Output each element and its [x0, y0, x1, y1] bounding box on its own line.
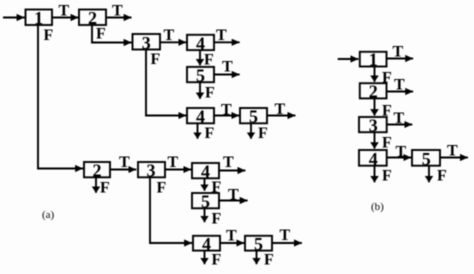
box 5 bottom [245, 236, 272, 251]
wire T out of box4 row4 [219, 170, 245, 172]
wire F box3 down to box4 mid [146, 50, 186, 116]
wire T box2 lower to box3 lower [110, 169, 136, 171]
svg-text:(a): (a) [42, 209, 55, 221]
entry arrow (b) [338, 58, 359, 60]
svg-text:3: 3 [147, 160, 156, 180]
box 3 [133, 34, 161, 50]
svg-text:F: F [382, 168, 392, 185]
wire T box b4 to box b5 [387, 157, 412, 159]
svg-text:T: T [59, 2, 70, 19]
box 3 lower [138, 162, 165, 177]
svg-text:T: T [280, 227, 291, 244]
svg-text:T: T [447, 143, 458, 160]
svg-text:T: T [393, 44, 404, 61]
svg-text:T: T [119, 154, 130, 171]
svg-text:F: F [382, 135, 392, 152]
wire F box5 row5 down [204, 208, 206, 222]
svg-text:F: F [212, 211, 222, 228]
wire F box b3 down [374, 132, 376, 148]
svg-text:T: T [164, 27, 175, 44]
svg-text:F: F [44, 27, 54, 44]
wire F box b5 down [428, 166, 430, 183]
wire T out of box b5 [440, 157, 468, 159]
svg-text:F: F [204, 52, 214, 69]
wire F box1 down [38, 25, 83, 169]
svg-text:4: 4 [201, 161, 210, 181]
svg-text:T: T [222, 59, 233, 76]
svg-text:5: 5 [254, 234, 263, 254]
wire F box4 top down [199, 50, 201, 65]
wire F box4 bottom down [204, 251, 206, 265]
svg-text:5: 5 [249, 107, 258, 127]
svg-text:F: F [205, 85, 215, 102]
svg-text:4: 4 [202, 234, 211, 254]
wire F box2 lower down [95, 177, 97, 193]
svg-text:T: T [396, 144, 407, 161]
wire F box2 down to box3 [92, 25, 132, 43]
wire T out of box b3 [387, 124, 413, 126]
svg-text:4: 4 [196, 33, 205, 53]
svg-text:5: 5 [201, 191, 210, 211]
wire T box4 bottom to box5 bottom [220, 242, 244, 244]
wire T out of box5 upper [214, 74, 240, 76]
wire T out of box4 top [214, 41, 240, 43]
svg-text:1: 1 [34, 8, 43, 28]
wire F box5 upper down [199, 82, 201, 99]
svg-text:T: T [394, 110, 405, 127]
svg-text:T: T [221, 102, 232, 119]
wire T box3 to box4 [160, 41, 186, 43]
wire T out of box5 bottom [272, 242, 302, 244]
svg-text:F: F [382, 103, 392, 120]
svg-text:F: F [205, 125, 215, 142]
svg-text:F: F [437, 168, 447, 185]
svg-text:F: F [264, 252, 274, 269]
svg-text:3: 3 [369, 115, 378, 135]
box 1 [26, 10, 53, 26]
entry arrow (a) [3, 17, 25, 19]
box 5 upper [187, 67, 214, 82]
svg-text:5: 5 [422, 149, 431, 169]
wire F box4 row4 down [204, 178, 206, 190]
svg-text:2: 2 [93, 160, 102, 180]
box 5 row5 [192, 193, 219, 208]
svg-text:5: 5 [196, 65, 205, 85]
wire T box1 to box2 [52, 17, 79, 19]
wire T out of box b2 [387, 91, 414, 93]
svg-text:F: F [258, 125, 268, 142]
wire F box5 mid down [250, 123, 252, 138]
svg-text:F: F [212, 179, 222, 196]
box 4 row4 [192, 163, 219, 178]
wire F box3 lower down to box4 bottom [150, 177, 192, 243]
svg-text:T: T [226, 228, 237, 245]
svg-text:T: T [275, 101, 286, 118]
box 2 [79, 10, 106, 26]
box b2 [360, 83, 387, 98]
svg-text:T: T [168, 154, 179, 171]
svg-text:T: T [394, 77, 405, 94]
box 4 bottom [193, 236, 220, 251]
box 2 lower [84, 162, 110, 177]
wire T box4 mid to box5 mid [214, 115, 239, 117]
wire T box3 lower to box4 lower [165, 169, 191, 171]
box 5 mid [240, 108, 267, 123]
svg-text:F: F [151, 51, 161, 68]
svg-text:F: F [100, 179, 110, 196]
svg-text:4: 4 [369, 149, 378, 169]
wire F box b2 down [374, 98, 376, 115]
wire T out of box b1 [387, 58, 414, 60]
box b5 [412, 150, 440, 166]
svg-text:T: T [228, 187, 239, 204]
wire T out of box5 mid [267, 115, 295, 117]
svg-text:F: F [382, 70, 392, 87]
wire F box5 bottom down [256, 251, 258, 265]
svg-text:T: T [216, 27, 227, 44]
svg-text:F: F [157, 179, 167, 196]
svg-text:4: 4 [196, 107, 205, 127]
svg-text:(b): (b) [371, 201, 384, 213]
box b3 [359, 117, 387, 132]
svg-text:F: F [96, 25, 106, 42]
box 4 top [187, 35, 214, 50]
svg-text:2: 2 [369, 82, 378, 102]
wire F box b4 down [374, 166, 376, 183]
box b4 [359, 150, 387, 166]
svg-text:T: T [223, 154, 234, 171]
svg-text:F: F [212, 252, 222, 269]
box b1 [360, 52, 387, 67]
svg-text:3: 3 [142, 33, 151, 53]
svg-text:T: T [112, 3, 123, 20]
svg-text:1: 1 [369, 50, 378, 70]
wire T out of box5 row5 [219, 200, 248, 202]
wire F box b1 down [374, 67, 376, 82]
box 4 mid [187, 108, 214, 123]
wire T out of box2 [106, 17, 132, 19]
wire F box4 mid down [197, 123, 199, 138]
